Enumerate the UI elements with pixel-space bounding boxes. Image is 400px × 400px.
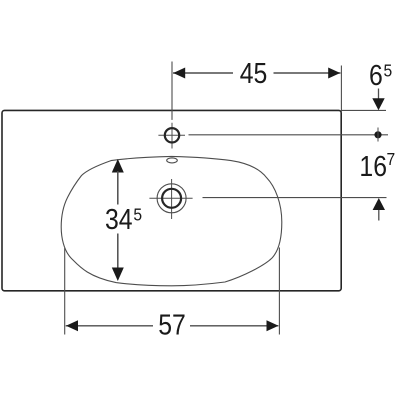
- drain inner circle: [162, 189, 181, 208]
- overflow hole: [167, 158, 178, 163]
- dim 45 line left segment: [173, 72, 233, 74]
- dim 45 line right segment: [274, 72, 341, 74]
- dim 6.5 arrow down: [372, 98, 384, 110]
- svg-text:5: 5: [384, 60, 393, 80]
- drain crosshair horizontal: [149, 197, 192, 199]
- dim 34.5 line lower segment: [117, 234, 119, 270]
- dim 45 arrow left: [173, 68, 185, 79]
- dim 6.5 extension line (top edge extended): [341, 109, 386, 111]
- dim 34.5 arrow down: [112, 268, 124, 282]
- dim 57 line right segment: [190, 325, 278, 327]
- dim 57 extension line left: [64, 248, 66, 335]
- drain crosshair vertical: [171, 179, 173, 219]
- dim 6.5 arrow stem: [378, 89, 380, 100]
- dim 45 extension line left: [171, 62, 173, 120]
- dim 16.7 arrow up: [373, 198, 385, 210]
- faucet leader line to dot: [189, 134, 389, 136]
- svg-text:5: 5: [133, 204, 142, 224]
- dim 34.5 arrow up: [112, 159, 124, 173]
- svg-text:57: 57: [158, 309, 186, 341]
- dim 57 arrow left: [66, 320, 78, 331]
- svg-text:7: 7: [386, 149, 395, 169]
- svg-text:45: 45: [240, 57, 268, 89]
- svg-text:16: 16: [359, 150, 387, 182]
- dim 34.5 line upper segment: [117, 171, 119, 205]
- dim 57 line left segment: [66, 325, 153, 327]
- drain leader line: [203, 197, 387, 199]
- dot terminator: [374, 131, 381, 138]
- dim 45 arrow right: [328, 68, 340, 79]
- faucet hole circle: [165, 128, 179, 142]
- dim 57 arrow right: [267, 320, 279, 331]
- svg-text:6: 6: [369, 59, 383, 91]
- faucet hole crosshair horizontal: [158, 134, 185, 136]
- basin inner outline: [61, 156, 282, 285]
- drain outer circle: [157, 184, 186, 213]
- dim 57 extension line right: [278, 248, 280, 335]
- faucet hole crosshair vertical: [171, 123, 173, 149]
- washbasin outer rectangle: [2, 110, 341, 290]
- svg-text:34: 34: [105, 203, 133, 235]
- dim 45 extension line right: [340, 66, 342, 113]
- dot vertical tick: [377, 128, 379, 142]
- dim 16.7 arrow stem: [378, 210, 380, 221]
